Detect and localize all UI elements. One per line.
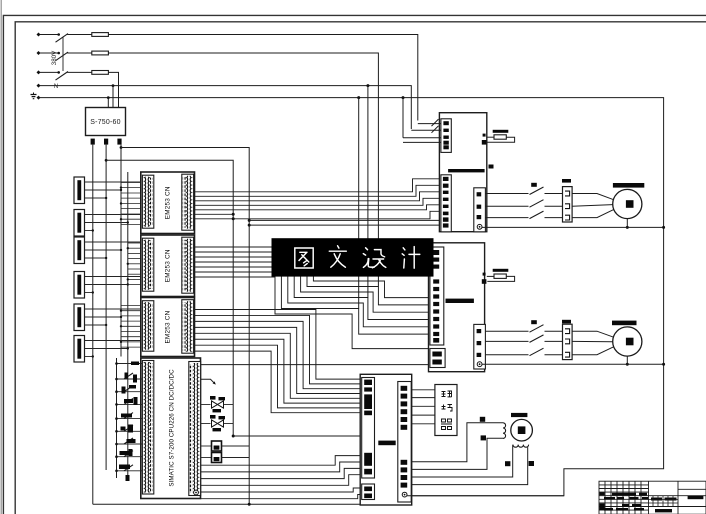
- U3 encoder terminal: [401, 417, 408, 422]
- wire U1 brake resistor: [487, 136, 494, 138]
- solenoid label: [210, 415, 216, 419]
- wire L3 to fuse: [67, 71, 92, 73]
- wire EM253#2 to drive U2 signal 6: [194, 272, 430, 334]
- wire CPU input 4: [117, 403, 143, 405]
- input actuator mark: [125, 373, 129, 379]
- motor M2 core: [626, 338, 634, 346]
- wire connector X3 stub: [85, 241, 143, 243]
- connector X2: [74, 210, 85, 237]
- wire connector X6 stub: [85, 348, 128, 350]
- wire U2 motor phase 3: [485, 354, 528, 356]
- drive U1 control terminal: [443, 121, 448, 125]
- wire U2 brake return: [487, 276, 514, 281]
- wire EM253#3 to drive U3 signal 3: [194, 321, 362, 388]
- junction N to PSU: [112, 84, 115, 87]
- CPU left terminal strip: [142, 361, 153, 495]
- wire EM253#1 to drive U1 signal 3: [194, 192, 442, 201]
- input actuator mark: [121, 427, 126, 431]
- FR1 heater element: [565, 215, 570, 220]
- input switch SQ8: [124, 465, 133, 471]
- wire +24V bus A (down left side): [92, 145, 94, 505]
- title block text bar: [639, 493, 647, 496]
- wire tag: [505, 461, 510, 466]
- U1 brake tag B: [482, 140, 487, 145]
- drive U1 output terminal: [477, 205, 482, 209]
- CPU right terminal strip: [189, 362, 201, 496]
- EM253 #3 left terminal strip: [142, 301, 153, 352]
- title block text bar: [632, 504, 641, 507]
- title block text bar: [604, 497, 615, 500]
- wire module 2 input stub: [128, 258, 143, 260]
- encoder box: [435, 385, 457, 436]
- wire module 1 input stub: [121, 197, 143, 199]
- drive U1 control terminal strip: [441, 119, 451, 153]
- watermark text 图文设计: [295, 246, 420, 268]
- wire module 1 input stub: [121, 187, 143, 189]
- svg-text:380V: 380V: [51, 50, 58, 65]
- wire EM253#1 tap to 0V bus: [194, 213, 234, 215]
- drive U2 terminal: [433, 287, 439, 291]
- wire to solenoid: [201, 423, 211, 425]
- input actuator mark: [134, 397, 138, 405]
- wire module 2 input stub: [128, 247, 143, 249]
- wire FR2 to motor M2: [572, 331, 614, 337]
- wire EM253#3 to drive U3 signal 8: [194, 351, 362, 413]
- motor M3 label: [511, 413, 527, 417]
- U3 left terminal block: [364, 394, 372, 409]
- junction PE to drive U1: [402, 96, 405, 99]
- input switch SQ3: [124, 398, 133, 404]
- drive U1 output terminal: [477, 215, 482, 219]
- wire U3 to winding 1: [411, 423, 503, 462]
- wire connector X6 stub: [85, 356, 93, 358]
- drive U2 terminal: [433, 258, 439, 262]
- fuse FU2: [92, 51, 109, 55]
- input actuator mark: [120, 451, 129, 455]
- wire PE drop to drive U1: [402, 98, 404, 138]
- junction bus B jog: [105, 159, 108, 162]
- wire CPU input 2: [117, 378, 143, 380]
- svg-text:SIMATIC S7-200 CPU226 CN DC/DC: SIMATIC S7-200 CPU226 CN DC/DC/DC: [169, 369, 176, 487]
- title block text bar: [688, 496, 704, 499]
- wire L3: [40, 71, 59, 73]
- wire L2: [40, 52, 59, 54]
- junction on PE loop: [662, 363, 665, 366]
- wire module 2 input stub: [128, 252, 143, 254]
- drive U2 output terminal box: [474, 324, 486, 369]
- junction bottom run: [248, 503, 251, 506]
- connector X1: [74, 177, 85, 204]
- wire module 3 input stub: [121, 331, 143, 333]
- connector X5: [74, 304, 85, 331]
- input actuator mark: [128, 425, 133, 433]
- wire EM253#1 to drive U1 signal 2: [194, 185, 442, 196]
- drive U2 output terminal: [477, 329, 482, 333]
- wire connector X4 stub: [85, 292, 93, 294]
- junction on 24V riser: [248, 219, 251, 222]
- wire U1 ground run: [482, 226, 664, 228]
- title block text bar: [604, 508, 613, 511]
- U3 left terminal strip: [362, 378, 375, 479]
- node L2 terminal: [37, 51, 41, 55]
- fuse FU1: [92, 33, 109, 37]
- U2 brake resistor: [494, 274, 506, 278]
- wire EM253#1 to drive U1 signal 1: [194, 179, 442, 192]
- contactor KM1 pole: [530, 211, 544, 219]
- wire to indicator: [201, 445, 212, 447]
- wire CPU input bus: [116, 358, 118, 478]
- wire EM253#1 to drive U1 signal 5: [194, 205, 442, 210]
- junction on PE loop: [662, 226, 665, 229]
- wire connector X1 stub: [85, 181, 143, 183]
- drive U2 body: [429, 243, 485, 372]
- title block text bar: [630, 497, 639, 500]
- watermark banner: [272, 238, 434, 276]
- FR2 heater element: [565, 329, 570, 334]
- drive U2 terminal: [433, 250, 439, 255]
- motor M2: [613, 327, 642, 356]
- circuit breaker QF pole 2: [56, 52, 69, 61]
- drive U2 terminal: [433, 302, 439, 306]
- drive U2 terminal: [433, 338, 439, 343]
- wire connector X5 stub: [85, 324, 107, 326]
- drive U1 output terminal box: [474, 188, 486, 232]
- wire EM253#2 to drive U2 signal 2: [194, 252, 430, 305]
- EM253 #2 left terminal strip: [142, 238, 153, 291]
- wire N into power supply: [112, 86, 114, 108]
- FR2 heater element: [565, 352, 570, 357]
- wire EM253#3 to drive U3 signal 4: [194, 327, 362, 393]
- wire module 2 input stub: [128, 273, 143, 275]
- node L3 terminal: [37, 70, 41, 74]
- wire CPU input 7: [117, 443, 143, 445]
- input switch SQ7: [124, 451, 133, 457]
- module EM253 CN #2: [141, 235, 195, 297]
- drive U2 terminal: [433, 332, 439, 336]
- wire EM253#3 to drive U3 signal 5: [194, 333, 362, 398]
- drive input switch mark: [432, 126, 439, 133]
- wire connector X3 stub: [85, 249, 122, 251]
- contactor KM2 pole: [530, 335, 544, 343]
- input switch SQ1: [124, 373, 133, 379]
- wire U2 motor phase 1: [485, 330, 528, 332]
- wire encoder signal 4: [411, 414, 435, 416]
- motor M1: [613, 189, 642, 218]
- input actuator mark: [127, 439, 136, 443]
- wire CPU to drive U3 signal 5: [201, 488, 362, 492]
- title block small grid: [649, 496, 679, 507]
- input actuator mark: [122, 387, 126, 394]
- wire drive U1 power input 1: [418, 123, 441, 125]
- wire tag: [480, 417, 485, 422]
- junction: [248, 224, 251, 227]
- stepper motor M3: [511, 419, 533, 441]
- wire N long drop to drive U2: [367, 86, 369, 298]
- motor M3 core: [518, 426, 526, 434]
- wire module 2 input stub: [128, 263, 143, 265]
- fuse FU3: [92, 71, 109, 75]
- drive U1 output terminal: [477, 192, 482, 196]
- FR1 label: [562, 179, 571, 183]
- U3 aux terminal box: [362, 484, 375, 500]
- title block text bar: [665, 498, 677, 501]
- wire U3 ground run to PE loop: [407, 495, 564, 497]
- drive U1 signal terminal: [443, 205, 449, 208]
- solenoid valve symbol: [212, 420, 224, 427]
- wire 0V feed to stepper drive U3: [106, 160, 362, 436]
- stepper winding 1 (vertical coil): [503, 423, 506, 439]
- wire CPU to drive U3 signal 4: [201, 475, 362, 486]
- contactor KM2 pole: [530, 325, 544, 333]
- FR1 heater element: [565, 204, 570, 209]
- U3 encoder terminal: [401, 425, 408, 430]
- module SIMATIC S7-200 CPU226: [141, 358, 201, 499]
- drive U1 control terminal: [443, 141, 448, 145]
- wire EM253#1 to drive U1 signal 6: [194, 211, 442, 219]
- wire L3 into power supply: [108, 72, 118, 107]
- wire EM253#1 to drive U1 signal 4: [194, 198, 442, 205]
- connector X3: [74, 237, 85, 264]
- drive U1 control terminal: [443, 145, 448, 149]
- drive U1 signal terminal: [443, 223, 449, 227]
- wire connector X1 stub: [85, 197, 107, 199]
- EM253 #2 right terminal strip: [182, 237, 194, 293]
- U3 left terminal block: [364, 469, 372, 475]
- wire CPU input 3: [117, 391, 143, 393]
- wire CPU input 6: [117, 430, 143, 432]
- wire bottom 24V run: [93, 503, 361, 505]
- contactor KM1 pole: [530, 200, 544, 208]
- wire U3 to winding 2: [411, 445, 513, 477]
- wire 0V bus B: [105, 145, 107, 470]
- U3 display bar: [378, 441, 395, 446]
- wire drive U1 power input 2: [411, 129, 441, 131]
- wire EM253#2 to drive U2 signal 5: [194, 267, 430, 327]
- wire PE into power supply: [107, 98, 109, 108]
- wire drive U1 power input 3: [403, 137, 441, 139]
- junction N bus drop: [366, 84, 369, 87]
- U1 brake resistor: [494, 135, 506, 139]
- drive U1 display bar: [448, 169, 485, 172]
- wire module 1 input stub: [121, 213, 143, 215]
- wire EM253#2 to drive U2 signal 4: [194, 262, 430, 320]
- wire L2 to fuse: [67, 52, 92, 54]
- input actuator mark: [119, 465, 130, 470]
- drive U1 signal terminal: [443, 198, 449, 201]
- indicator lamp square: [212, 441, 222, 451]
- contactor KM1 pole: [530, 187, 544, 195]
- drive U1 ground screw: [477, 224, 482, 229]
- stepper drive U3 body: [360, 374, 412, 505]
- U3 encoder terminal: [401, 394, 408, 399]
- U1 brake resistor label: [493, 130, 509, 133]
- junction on signal 6: [232, 217, 235, 220]
- drive U1 signal terminal: [443, 177, 449, 181]
- wire U2 motor phase 2: [485, 340, 528, 342]
- PSU output terminal 0V: [104, 139, 108, 145]
- U3 left terminal block: [364, 380, 372, 385]
- wire M1 ground stub: [626, 219, 628, 228]
- title block text bar: [622, 504, 629, 507]
- overload relay FR2: [563, 324, 573, 359]
- wire L1: [40, 34, 59, 36]
- drive U1 signal terminal: [443, 191, 449, 194]
- drive U2 left terminal strip: [430, 247, 444, 345]
- input switch SQ2: [124, 386, 133, 392]
- svg-text:EM253 CN: EM253 CN: [165, 310, 172, 343]
- wire L1 to drive U1: [108, 35, 417, 121]
- title block text bar: [651, 498, 662, 501]
- U2 brake tag B: [482, 279, 487, 284]
- wire PE long drop to drive U2: [358, 98, 360, 309]
- stepper winding 2 (horizontal coil): [513, 445, 529, 448]
- drive U2 terminal: [433, 309, 439, 313]
- wire connector X5 stub: [85, 308, 143, 310]
- drive U2 terminal: [433, 265, 439, 269]
- drive U2 ground screw: [477, 362, 482, 367]
- wire module 3 input stub: [121, 315, 143, 317]
- title block text bar: [617, 497, 624, 500]
- wire module 2 input stub: [128, 278, 143, 280]
- wire U1 motor phase 2: [485, 205, 528, 207]
- U3 left terminal block: [364, 387, 372, 391]
- wire module 2 input stub: [128, 284, 143, 286]
- connector X4: [74, 272, 85, 299]
- U2 brake resistor label: [493, 269, 509, 272]
- wire EM253#2 to drive U2 signal 3: [194, 257, 430, 312]
- node L1 terminal: [37, 33, 41, 37]
- power supply S-750-60: [86, 108, 126, 136]
- drive U2 output terminal: [477, 353, 482, 357]
- circuit breaker QF pole 3: [56, 72, 69, 81]
- wire L2 long drop to drive U2: [108, 53, 378, 287]
- wire CPU to drive U2 enable: [201, 364, 430, 366]
- svg-text:EM253 CN: EM253 CN: [165, 186, 172, 219]
- U3 motor terminal: [401, 483, 408, 488]
- wire EM253#2 to drive U2 signal 1: [194, 247, 430, 298]
- wire connector X2 stub: [85, 222, 128, 224]
- junction at stepper feed: [232, 435, 235, 438]
- U3 left terminal block: [364, 453, 372, 466]
- wire module 3 input stub: [121, 305, 143, 307]
- U3 left terminal block: [364, 411, 372, 416]
- PSU output terminal +V: [91, 139, 95, 145]
- input switch SQ6: [124, 438, 133, 444]
- CPU right strip ground screw: [194, 490, 199, 495]
- node PE terminal: [37, 96, 41, 100]
- wire module 3 input stub: [121, 320, 143, 322]
- drive U1 control terminal: [443, 129, 448, 132]
- wire CPU input 5: [117, 418, 143, 420]
- wire EM253#3 to drive U3 signal 6: [194, 339, 362, 403]
- wire EM253#3 to drive U3 signal 7: [194, 345, 362, 408]
- wire connector X2 stub: [85, 214, 143, 216]
- input actuator mark: [129, 449, 133, 456]
- wire module 3 input stub: [121, 346, 143, 348]
- input switch SQ5: [124, 425, 133, 431]
- wire drive U1 power input 4: [403, 141, 441, 143]
- svg-text:N: N: [54, 84, 58, 90]
- wire connector X1 stub: [85, 189, 122, 191]
- wire N bus: [40, 86, 411, 129]
- title block text bar: [642, 497, 648, 500]
- wire encoder signal 2: [411, 397, 435, 399]
- contactor KM2 pole: [530, 348, 544, 356]
- wire U3 to winding 2 return: [411, 447, 528, 484]
- wire module 3 input stub: [121, 341, 143, 343]
- drive input switch mark: [432, 119, 439, 126]
- title block text bar: [626, 493, 636, 496]
- wire to indicator: [201, 457, 212, 459]
- input actuator mark: [124, 399, 133, 403]
- wire connector X2 stub: [85, 230, 93, 232]
- wire CPU input 8: [117, 456, 143, 458]
- drive U1 signal terminal strip: [441, 175, 451, 232]
- junction PE to PSU: [107, 96, 110, 99]
- title block text bar: [612, 493, 626, 496]
- wire tag: [529, 461, 534, 466]
- wire encoder signal 3: [411, 405, 435, 407]
- junction bus C jog: [120, 146, 123, 149]
- EM253 #3 right terminal strip: [182, 300, 194, 354]
- drive U1 signal terminal: [443, 184, 449, 188]
- wire EM253#3 to drive U3 signal 1: [194, 310, 362, 380]
- wire M2 ground stub: [626, 356, 628, 364]
- drive U1 body: [439, 113, 486, 232]
- drive U2 terminal: [433, 279, 439, 283]
- wire EM253#3 to drive U3 signal 2: [194, 315, 362, 383]
- wire CPU input 1: [117, 363, 143, 365]
- wire CPU to drive U3 signal 2: [201, 462, 362, 472]
- drive U2 brake terminal box: [430, 349, 445, 368]
- U2 brake tag A: [483, 273, 486, 276]
- wire bus D: [127, 172, 129, 480]
- wire PE bus with right-side return loop: [40, 98, 664, 496]
- contactor KM2 label: [531, 320, 537, 324]
- U3 motor terminal: [401, 475, 408, 480]
- motor M1 label: [613, 183, 644, 188]
- U3 ground screw: [402, 492, 407, 497]
- indicator lamp square: [212, 453, 222, 463]
- input actuator mark: [133, 375, 137, 383]
- drive U2 terminal: [433, 324, 439, 328]
- wire module 2 input stub: [128, 242, 143, 244]
- wire 0V feed to drive U1: [249, 224, 441, 226]
- wire U1 motor phase 3: [485, 217, 528, 219]
- U3 motor terminal: [401, 460, 408, 465]
- wire encoder signal 5: [411, 423, 435, 425]
- wire CPU output arrow: [201, 379, 215, 383]
- wire EM253#2 to drive U2 signal 7: [194, 277, 430, 349]
- U3 encoder terminal: [401, 401, 408, 406]
- wire connector X4 stub: [85, 276, 143, 278]
- title block text bar: [600, 504, 605, 511]
- wire CPU to drive U3 signal 6: [201, 495, 362, 499]
- title block text bar: [634, 508, 644, 511]
- wire 24V feed to bottom area: [121, 148, 249, 505]
- contactor KM1 label: [531, 183, 537, 187]
- node N terminal: [37, 84, 41, 88]
- PSU output terminal PE: [117, 139, 121, 145]
- motor M1 core: [626, 200, 634, 208]
- wire connector X5 stub: [85, 316, 122, 318]
- wire FR1 to motor M1: [572, 194, 614, 200]
- junction tap on bus: [232, 213, 235, 216]
- wire connector X4 stub: [85, 284, 128, 286]
- wire to solenoid: [201, 404, 211, 406]
- junction PE bus drop: [357, 96, 360, 99]
- drive U2 terminal: [433, 294, 439, 298]
